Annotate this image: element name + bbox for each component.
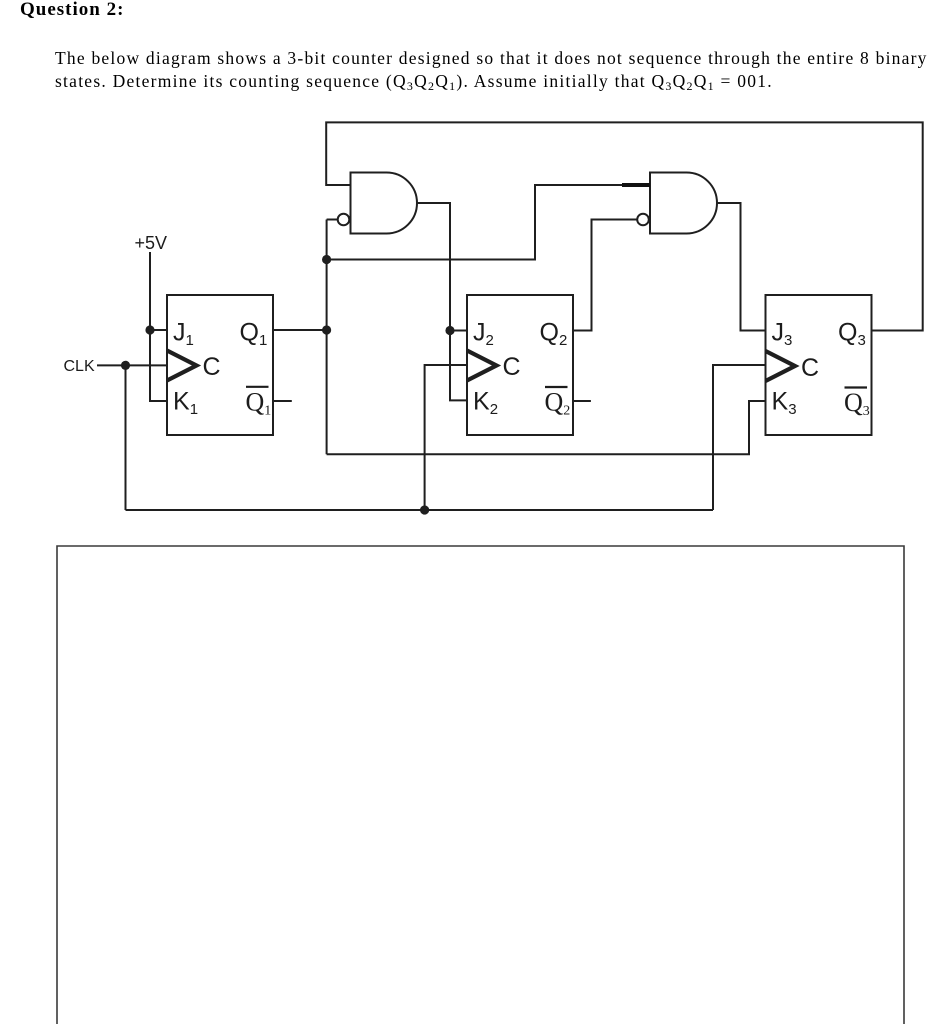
wire CLK rail up to C3	[713, 365, 766, 510]
svg-text:Q2: Q2	[545, 388, 571, 419]
svg-text:CLK: CLK	[64, 358, 95, 375]
wire G2 output to J3	[717, 203, 766, 331]
junction CLK rail at FF2 drop	[420, 505, 429, 514]
svg-text:Q1: Q1	[240, 319, 268, 350]
wire Q1 to K3	[327, 401, 766, 454]
junction Q1 upper	[322, 255, 331, 264]
wire Q1 output	[273, 329, 327, 331]
wire Q1 to G1 bubble	[327, 219, 338, 221]
svg-text:K2: K2	[473, 388, 498, 419]
clock edge triangle U1	[167, 351, 197, 381]
svg-text:Q2: Q2	[540, 319, 568, 350]
svg-text:K1: K1	[173, 388, 198, 419]
wire Q2bar stub	[573, 400, 591, 402]
svg-text:J3: J3	[772, 319, 793, 350]
wire Q3 top feedback to G1 top input	[326, 122, 923, 330]
junction +5V/J1	[145, 325, 154, 334]
svg-text:J2: J2	[473, 319, 494, 350]
wire CLK bottom rail	[126, 509, 714, 511]
svg-text:Q3: Q3	[838, 319, 866, 350]
title: Question 2	[20, 0, 124, 19]
svg-text:C: C	[801, 354, 819, 382]
AND gate G2	[650, 173, 717, 234]
svg-text:J1: J1	[173, 319, 194, 350]
clock edge triangle U2	[467, 351, 497, 381]
svg-text:C: C	[203, 353, 221, 381]
paragraph line 1	[55, 50, 928, 68]
wire Q1 vertical spine	[326, 220, 328, 455]
thick segment at G2 top input	[622, 183, 650, 187]
flip-flop U1 box	[167, 295, 273, 435]
wire CLK rail up to C2	[425, 365, 467, 510]
wire Q2 output to G2 bubble	[573, 220, 637, 331]
junction CLK	[121, 361, 130, 370]
clock edge triangle U3	[766, 351, 796, 381]
paragraph line 2	[55, 73, 773, 91]
wire Q1bar stub	[273, 400, 292, 402]
AND gate G1	[351, 173, 417, 234]
svg-text:C: C	[503, 353, 521, 381]
wire Q1 to G2 top input	[327, 185, 650, 260]
answer box	[57, 546, 904, 1024]
svg-text:+5V: +5V	[135, 233, 168, 253]
wire CLK drop	[125, 365, 127, 510]
svg-text:Q3: Q3	[844, 388, 870, 419]
flip-flop U2 box	[467, 295, 573, 435]
wire G1 output branch to J2	[450, 330, 467, 332]
junction Q1 at output	[322, 325, 331, 334]
wire G1 output to J2 and K2	[417, 203, 467, 400]
inverting bubble G2 input	[637, 214, 649, 226]
junction G1 out at J2	[445, 326, 454, 335]
inverting bubble G1 input	[338, 214, 350, 226]
flip-flop U3 box	[766, 295, 872, 435]
wire +5V lead down to K1	[150, 252, 167, 401]
wire CLK input to C1	[97, 364, 167, 366]
svg-text:Q1: Q1	[246, 388, 272, 419]
svg-text:K3: K3	[772, 388, 797, 419]
wire +5V branch to J1	[150, 329, 167, 331]
